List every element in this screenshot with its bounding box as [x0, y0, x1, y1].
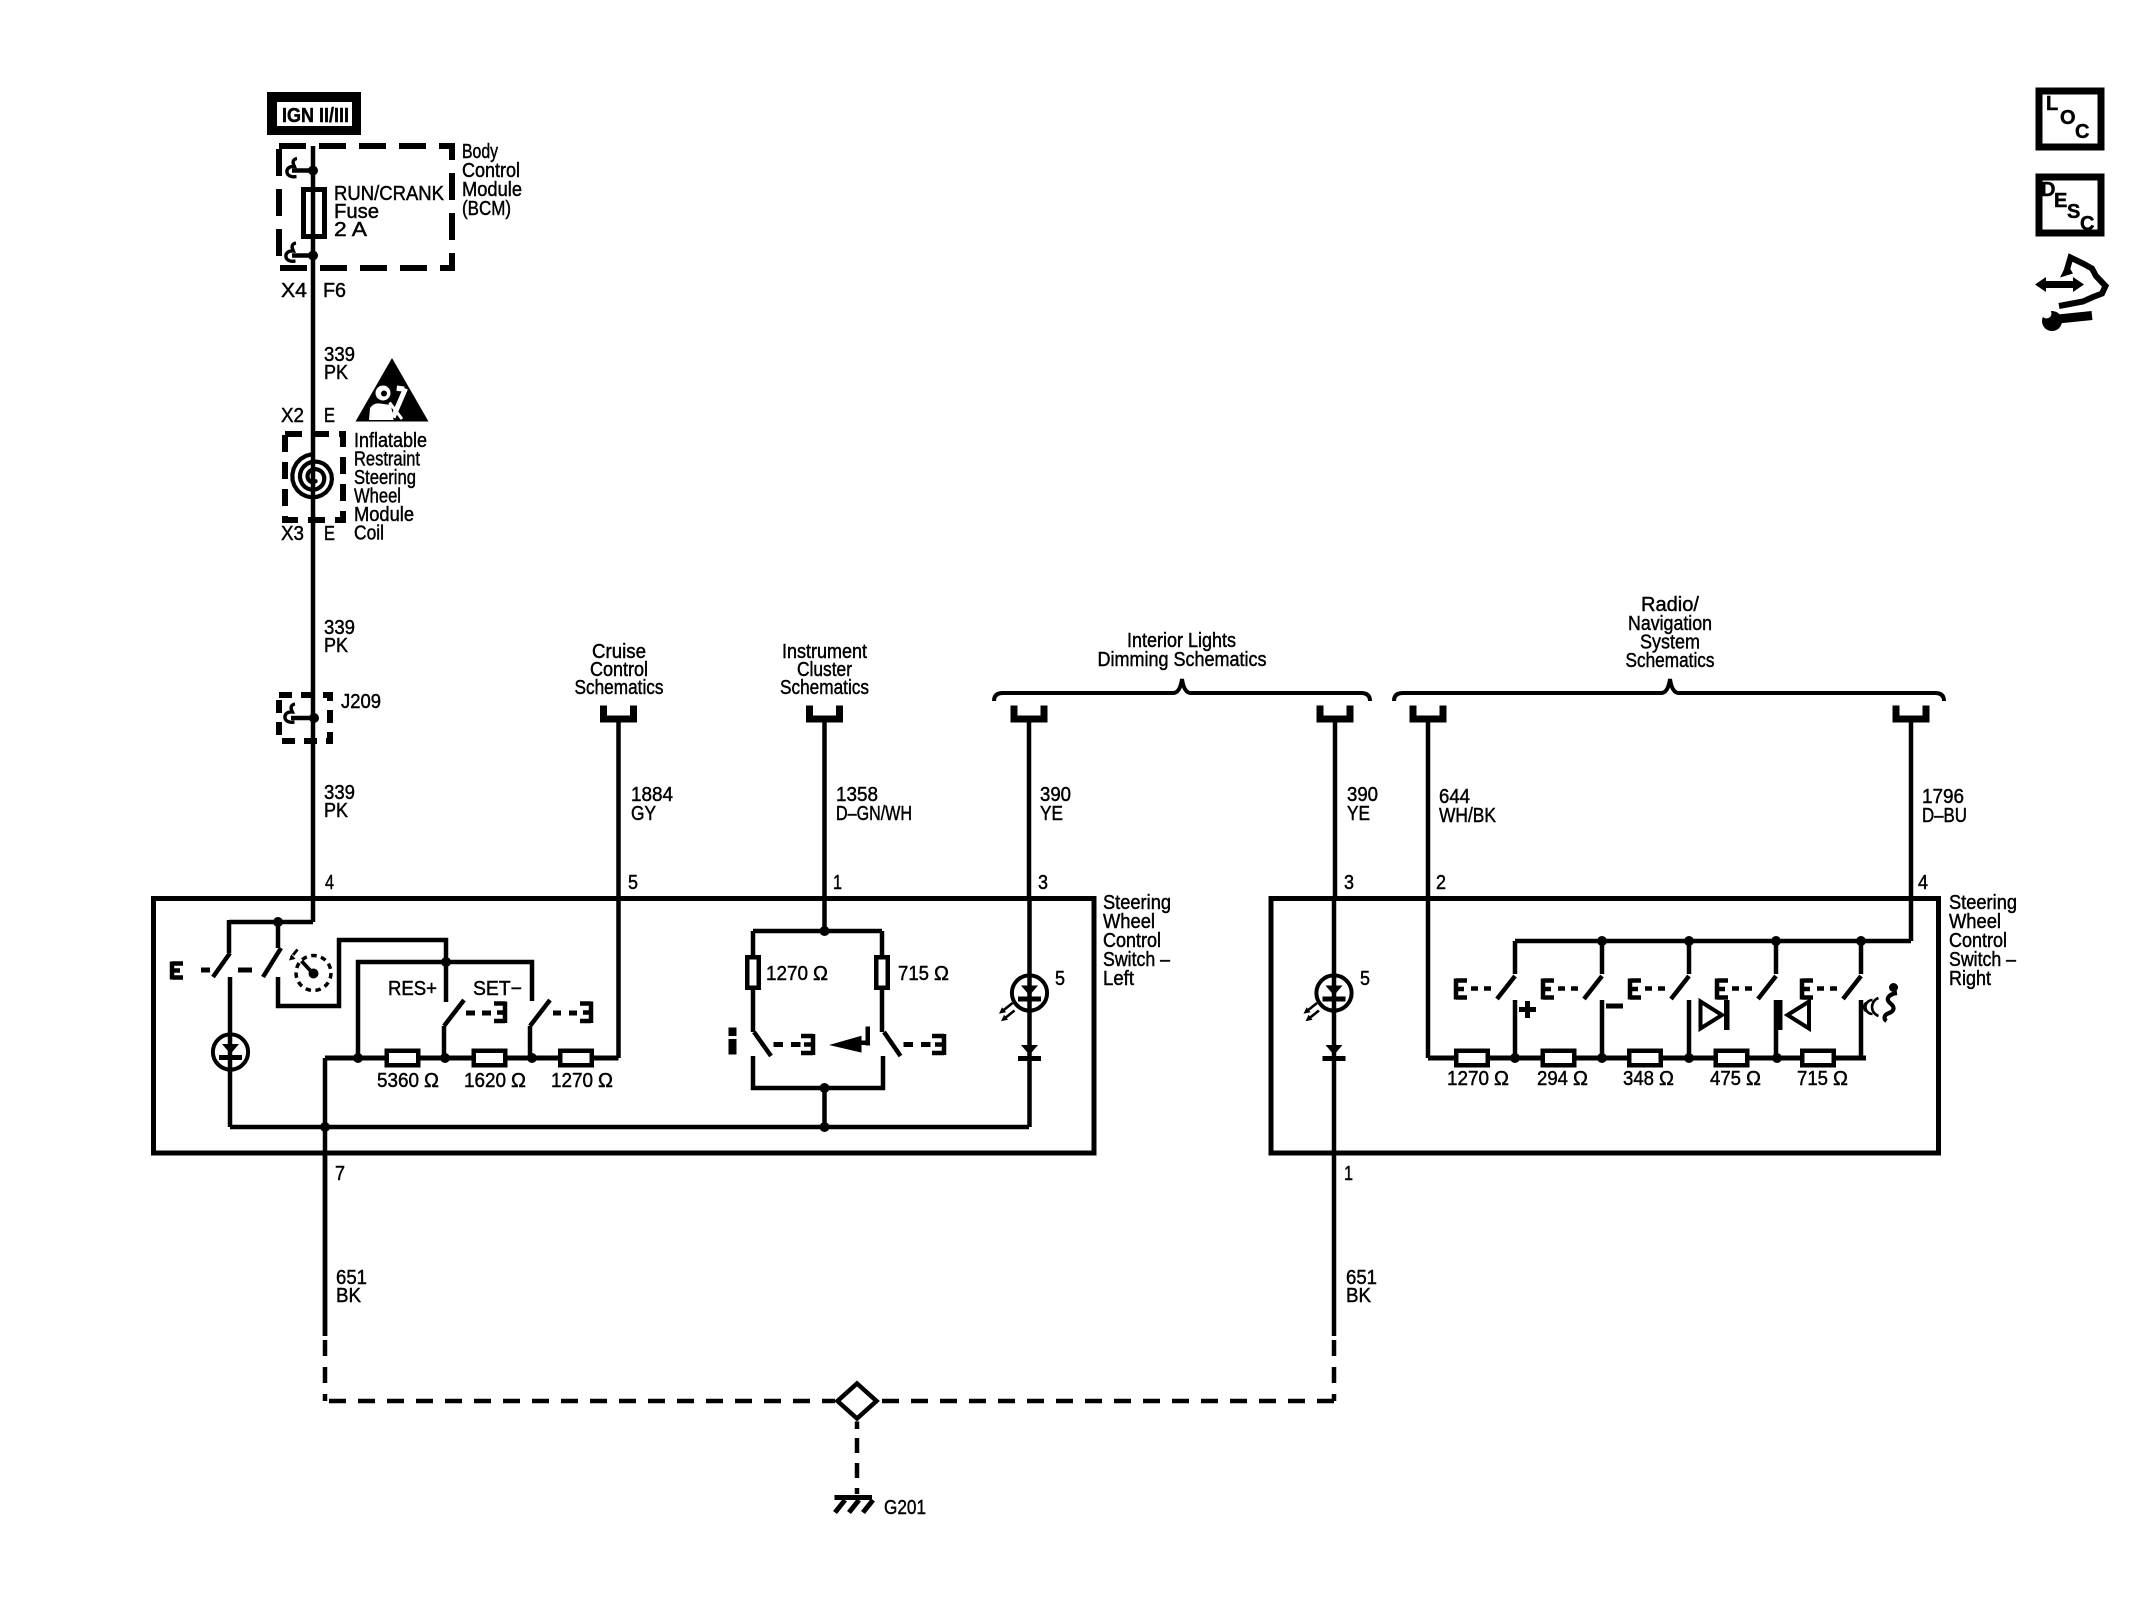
fuse RUN/CRANK 2A — [304, 190, 325, 237]
value label 348 ohm — [1623, 1068, 1674, 1090]
wire 644 WH/BK — [1426, 720, 1431, 896]
wire RES/SET feed — [358, 957, 532, 1058]
pin labels X2 E — [281, 405, 335, 427]
svg-text:4: 4 — [325, 872, 334, 894]
wire label 339 PK — [324, 617, 355, 657]
header Interior Lights Dimming Schematics — [1098, 630, 1267, 671]
svg-text:GY: GY — [631, 803, 656, 825]
LED indicator with zener (right box) — [1304, 896, 1352, 1153]
svg-text:1: 1 — [833, 872, 842, 894]
svg-text:BK: BK — [1346, 1285, 1372, 1307]
instrument cluster bottom bracket — [753, 1056, 883, 1132]
switch blade (seek) — [884, 1032, 944, 1056]
svg-text:Right: Right — [1949, 968, 1991, 990]
icon plus — [1519, 1001, 1536, 1018]
svg-text:715: 715 — [1797, 1068, 1828, 1090]
connector to interior lights dimming (left) — [1014, 706, 1044, 720]
value label 1270 ohm — [551, 1070, 613, 1092]
brace radio navigation group — [1394, 679, 1944, 701]
module name text (left box) — [1103, 892, 1171, 990]
svg-text:C: C — [2075, 121, 2089, 143]
switch blade left (cruise on/off a) — [213, 920, 230, 977]
ground G201 symbol — [835, 1498, 874, 1513]
legend icon LOC — [2039, 91, 2101, 147]
value label 294 ohm — [1537, 1068, 1588, 1090]
svg-text:Ω: Ω — [598, 1070, 613, 1092]
wire 651 BK solid (left) — [323, 1153, 328, 1336]
svg-text:Ω: Ω — [813, 963, 828, 985]
wire label 651 BK (right) — [1346, 1267, 1377, 1307]
svg-text:D–BU: D–BU — [1922, 805, 1967, 827]
zener diode (right box) — [1323, 1045, 1346, 1061]
resistor 5360 ohm — [353, 1051, 418, 1066]
power feed label IGN II/III — [267, 92, 361, 135]
resistor rail (left box) — [325, 1056, 619, 1061]
pin numbers above left box — [325, 872, 1048, 894]
connector to instrument cluster schematics — [810, 706, 840, 720]
label RES+ — [388, 978, 437, 1000]
value label 715 ohm — [1797, 1068, 1848, 1090]
splice label J209 — [341, 691, 381, 713]
svg-text:348: 348 — [1623, 1068, 1654, 1090]
svg-text:Ω: Ω — [511, 1070, 526, 1092]
svg-text:Ω: Ω — [934, 963, 949, 985]
label SET- — [473, 978, 522, 1000]
wire gauge loop — [278, 940, 446, 1006]
resistor 1620 ohm — [440, 1051, 505, 1066]
svg-text:Ω: Ω — [1494, 1068, 1509, 1090]
svg-text:YE: YE — [1347, 803, 1370, 825]
pin labels X3 E — [281, 523, 335, 545]
svg-text:294: 294 — [1537, 1068, 1568, 1090]
label 5 (LED pin) — [1055, 968, 1065, 990]
fuse label text — [334, 183, 445, 241]
svg-text:WH/BK: WH/BK — [1439, 805, 1497, 827]
wire label 1358 D-GN/WH — [836, 784, 912, 825]
svg-text:1270: 1270 — [551, 1070, 593, 1092]
svg-text:Schematics: Schematics — [575, 677, 664, 699]
svg-text:L: L — [2046, 93, 2058, 115]
svg-text:PK: PK — [324, 362, 349, 384]
svg-text:C: C — [2080, 213, 2094, 235]
icon voice recognition — [1864, 983, 1898, 1021]
switch blade (info) — [754, 1032, 813, 1056]
value label 715 ohm — [898, 963, 949, 985]
icon minus — [1606, 1004, 1623, 1009]
pin labels X4 F6 — [281, 280, 346, 302]
LED indicator with zener (pin 3 branch) — [999, 896, 1047, 1127]
svg-text:IGN II/III: IGN II/III — [282, 105, 349, 127]
svg-text:Dimming Schematics: Dimming Schematics — [1098, 649, 1267, 671]
dashed ground bus (left run) — [329, 1399, 835, 1404]
svg-text:1620: 1620 — [464, 1070, 506, 1092]
svg-text:(BCM): (BCM) — [462, 198, 511, 220]
wire 390 YE (right) — [1333, 720, 1338, 896]
svg-text:Schematics: Schematics — [780, 677, 869, 699]
pin numbers above right box — [1344, 872, 1928, 894]
resistor 1270 ohm (right box) — [1456, 1051, 1520, 1066]
value label 5360 ohm — [377, 1070, 439, 1092]
BCM label text — [462, 141, 522, 220]
pin number 1 (right box) — [1344, 1163, 1353, 1185]
dashed ground bus (right run) — [879, 1399, 1334, 1404]
icon seek back — [1777, 1000, 1809, 1030]
wire pin 4 to top rail — [1909, 896, 1914, 941]
svg-text:J209: J209 — [341, 691, 381, 713]
module box Steering Wheel Control Switch Right — [1271, 899, 1939, 1154]
wire label 1884 GY — [631, 784, 673, 825]
coil module label text — [354, 430, 427, 545]
module name text (right box) — [1949, 892, 2017, 990]
svg-text:Ω: Ω — [1746, 1068, 1761, 1090]
splice diamond — [838, 1384, 877, 1430]
ground label G201 — [884, 1497, 926, 1519]
wire 1884 GY — [616, 720, 621, 896]
svg-text:YE: YE — [1040, 803, 1063, 825]
connector to radio/nav schematics (left) — [1413, 706, 1443, 720]
svg-text:5: 5 — [628, 872, 638, 894]
svg-text:4: 4 — [1918, 872, 1928, 894]
wire label 339 PK — [324, 344, 355, 384]
switch seek back — [1717, 936, 1781, 1058]
resistor 294 ohm (right box) — [1543, 1051, 1607, 1066]
clockspring coil symbol — [292, 454, 332, 497]
value label 1270 ohm — [766, 963, 828, 985]
LED indicator (left branch) — [213, 977, 248, 1127]
header Cruise Control Schematics — [575, 641, 664, 699]
svg-text:7: 7 — [335, 1163, 345, 1185]
svg-text:RES+: RES+ — [388, 978, 437, 1000]
brace interior lights group — [994, 679, 1370, 701]
svg-text:G201: G201 — [884, 1497, 926, 1519]
svg-text:3: 3 — [1344, 872, 1354, 894]
wire label 390 YE — [1040, 784, 1071, 825]
svg-text:Left: Left — [1103, 968, 1134, 990]
wire pin 2 to rail — [1426, 896, 1431, 1058]
resistor 715 ohm (right box) — [1802, 1051, 1834, 1066]
wire 1358 D-GN/WH — [822, 720, 827, 896]
wire 651 BK dashed (left) — [323, 1340, 328, 1401]
svg-text:475: 475 — [1710, 1068, 1741, 1090]
resistor 475 ohm (right box) — [1716, 1051, 1782, 1066]
resistor 348 ohm (right box) — [1629, 1051, 1694, 1066]
svg-text:D–GN/WH: D–GN/WH — [836, 803, 912, 825]
svg-text:SET−: SET− — [473, 978, 522, 1000]
connector pin bottom (BCM internal) — [286, 243, 318, 261]
header Instrument Cluster Schematics — [780, 641, 869, 699]
wire label 390 YE — [1347, 784, 1378, 825]
instrument cluster switch group top bracket — [753, 896, 882, 936]
info switch icon i — [729, 1028, 737, 1055]
svg-text:1270: 1270 — [766, 963, 808, 985]
switch volume up — [1456, 941, 1515, 1058]
svg-text:Coil: Coil — [354, 523, 384, 545]
label 5 (LED pin) — [1360, 968, 1370, 990]
switch voice — [1802, 936, 1866, 1058]
svg-text:3: 3 — [1038, 872, 1048, 894]
svg-text:5: 5 — [1055, 968, 1065, 990]
wire 651 BK dashed (right) — [1332, 1340, 1337, 1401]
legend icon jump arrows — [2035, 258, 2106, 307]
zener diode — [1018, 1045, 1041, 1061]
splice J209 connector symbol — [285, 704, 319, 723]
module box Steering Wheel Control Switch Left — [154, 899, 1095, 1154]
svg-text:PK: PK — [324, 635, 349, 657]
switch fixed contact E dashes — [172, 962, 252, 980]
switch seek forward — [1630, 936, 1694, 1058]
icon seek forward — [1701, 1000, 1730, 1030]
connector pin top (BCM internal) — [287, 159, 318, 177]
value label 1620 ohm — [464, 1070, 526, 1092]
module BCM dashed outline — [279, 146, 452, 268]
svg-text:E: E — [324, 523, 335, 545]
connector to interior lights dimming (right) — [1320, 706, 1350, 720]
connector to radio/nav schematics (right) — [1896, 706, 1926, 720]
svg-text:715: 715 — [898, 963, 929, 985]
inner ground bus wire — [230, 1125, 1029, 1130]
wire jog from pin 4 — [229, 917, 313, 927]
wire 390 YE (left) — [1027, 720, 1032, 896]
legend icon wrench — [2042, 309, 2093, 332]
wire label 651 BK (left) — [336, 1267, 367, 1307]
module coil dashed outline — [285, 434, 343, 520]
svg-text:Ω: Ω — [1833, 1068, 1848, 1090]
switch volume down — [1543, 936, 1607, 1058]
switch SET- blade — [530, 1000, 591, 1058]
svg-text:F6: F6 — [323, 280, 346, 302]
svg-text:5360: 5360 — [377, 1070, 419, 1092]
resistor 715 ohm (instrument right leg) — [876, 931, 888, 1032]
cruise on/off gauge icon — [296, 956, 331, 991]
wire label 1796 D-BU — [1922, 786, 1967, 827]
header Radio/Navigation System Schematics — [1626, 594, 1715, 672]
resistor 1270 ohm (instrument left leg) — [747, 931, 759, 1032]
legend icon DESC — [2039, 177, 2101, 235]
connector to cruise control schematics — [604, 706, 634, 720]
svg-text:E: E — [324, 405, 335, 427]
svg-text:Ω: Ω — [1659, 1068, 1674, 1090]
svg-text:E: E — [2054, 190, 2067, 212]
pin number 7 — [335, 1163, 345, 1185]
svg-text:O: O — [2060, 107, 2076, 129]
svg-text:X4: X4 — [281, 280, 307, 302]
dashed wire to ground — [855, 1438, 860, 1494]
value label 475 ohm — [1710, 1068, 1761, 1090]
svg-text:2 A: 2 A — [334, 219, 368, 241]
svg-text:X2: X2 — [281, 405, 304, 427]
wire to pin 7 — [320, 1058, 330, 1336]
wire label 644 WH/BK — [1439, 786, 1497, 827]
svg-text:2: 2 — [1436, 872, 1446, 894]
resistor 1270 ohm — [527, 1051, 592, 1066]
wire 651 BK solid (right) — [1332, 1153, 1337, 1336]
splice J209 dashed outline — [279, 695, 330, 741]
svg-text:PK: PK — [324, 800, 349, 822]
wire 339 PK from BCM to switch — [311, 146, 316, 922]
svg-text:1: 1 — [1344, 1163, 1353, 1185]
value label 1270 ohm — [1447, 1068, 1509, 1090]
svg-text:5: 5 — [1360, 968, 1370, 990]
seek-back switch icon — [829, 1027, 870, 1053]
svg-text:1270: 1270 — [1447, 1068, 1489, 1090]
SIR airbag warning symbol — [356, 358, 429, 422]
wire to pin 5 (cruise signal) — [616, 896, 621, 1058]
svg-text:BK: BK — [336, 1285, 362, 1307]
svg-text:Ω: Ω — [1573, 1068, 1588, 1090]
svg-text:Ω: Ω — [424, 1070, 439, 1092]
svg-text:Schematics: Schematics — [1626, 650, 1715, 672]
svg-text:X3: X3 — [281, 523, 304, 545]
switch top rail — [1515, 939, 1911, 944]
switch RES+ blade — [444, 1000, 505, 1058]
resistor rail (right box) — [1428, 1056, 1866, 1061]
wire label 339 PK — [324, 782, 355, 822]
svg-text:S: S — [2067, 201, 2080, 223]
wire 1796 D-BU — [1909, 720, 1914, 896]
switch blade right (cruise on/off b) — [263, 922, 281, 977]
actuator arrow — [289, 950, 298, 961]
